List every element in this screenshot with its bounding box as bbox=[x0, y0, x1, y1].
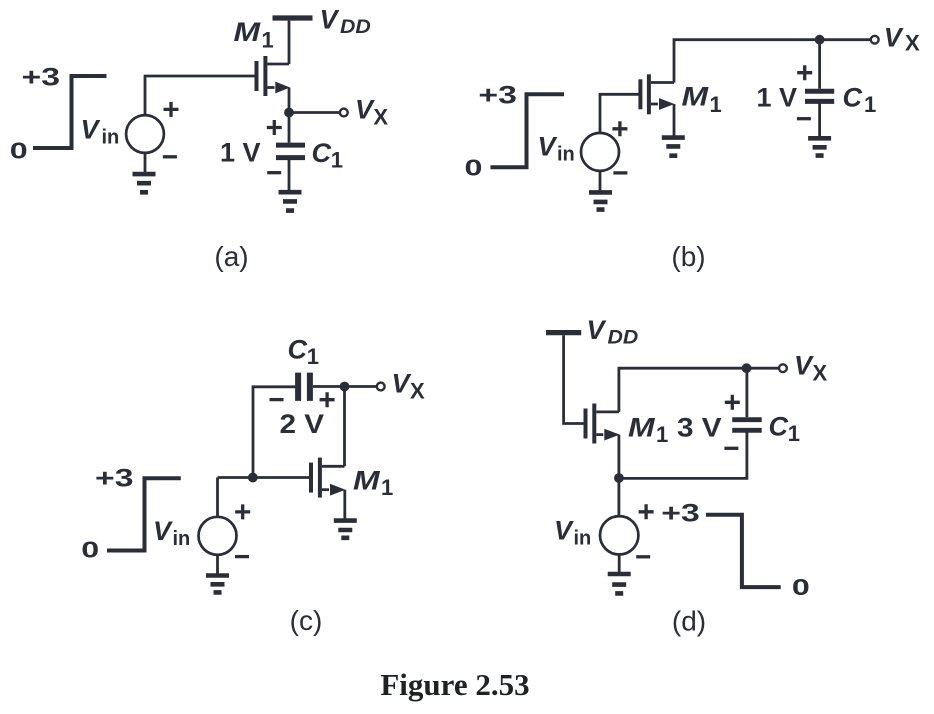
svg-text:V: V bbox=[794, 351, 814, 381]
svg-text:in: in bbox=[173, 528, 191, 550]
label M1 (d) bbox=[628, 413, 668, 447]
voltage source Vin (a) bbox=[126, 115, 164, 153]
wire Vin bottom to ground (a) bbox=[144, 153, 147, 173]
svg-text:1: 1 bbox=[710, 92, 722, 117]
svg-text:(b): (b) bbox=[671, 241, 705, 272]
svg-text:1 V: 1 V bbox=[220, 138, 261, 168]
plus sign Vin (a) bbox=[164, 102, 179, 117]
label VX (a) bbox=[355, 94, 388, 129]
step source label 0 (d) bbox=[792, 574, 810, 599]
label Vin (b) bbox=[538, 132, 575, 166]
transistor M1 (b) bbox=[640, 74, 674, 114]
svg-text:+3: +3 bbox=[478, 82, 516, 110]
wire node to capacitor (d) bbox=[746, 368, 749, 417]
svg-text:+3: +3 bbox=[22, 64, 60, 92]
wire Vin bottom to ground (d) bbox=[618, 555, 621, 573]
step waveform (c) bbox=[107, 478, 181, 550]
svg-text:C: C bbox=[312, 138, 332, 168]
svg-text:0: 0 bbox=[792, 574, 810, 599]
svg-text:M: M bbox=[682, 82, 710, 112]
minus sign capacitor (c) bbox=[270, 398, 284, 401]
plus sign capacitor (a) bbox=[267, 120, 282, 135]
label Vin (a) bbox=[81, 115, 120, 149]
figure caption bbox=[380, 667, 529, 702]
svg-text:0: 0 bbox=[10, 138, 28, 163]
caption (a) bbox=[214, 241, 248, 272]
transistor M1 (a) bbox=[257, 56, 291, 96]
wire node to drain (c) bbox=[343, 387, 346, 467]
ground capacitor (a) bbox=[279, 192, 302, 210]
svg-text:C: C bbox=[769, 412, 789, 442]
wire node to Vin (d) bbox=[618, 478, 621, 516]
minus sign capacitor (a) bbox=[267, 171, 281, 174]
ground M1 source (c) bbox=[334, 521, 357, 538]
value label 1 V (b) bbox=[757, 83, 798, 113]
node X junction dot (a) bbox=[284, 108, 294, 118]
plus sign capacitor (d) bbox=[725, 395, 740, 410]
svg-text:1: 1 bbox=[381, 475, 393, 500]
wire right plate to node X (c) bbox=[313, 385, 340, 388]
caption (c) bbox=[290, 605, 323, 636]
ground Vin (d) bbox=[608, 574, 631, 593]
wire drain to top rail (d) bbox=[619, 368, 742, 412]
wire gate line (c) bbox=[218, 476, 310, 479]
label Vin (d) bbox=[554, 516, 591, 550]
wire Vin bottom to ground (b) bbox=[599, 171, 602, 191]
svg-text:+3: +3 bbox=[95, 465, 133, 493]
wire Vin top to gate (c) bbox=[216, 478, 219, 517]
ground Vin (b) bbox=[589, 192, 612, 209]
wire Vin bottom to ground (c) bbox=[216, 555, 219, 574]
svg-text:(d): (d) bbox=[672, 606, 706, 637]
node junction dot gate (c) bbox=[248, 473, 258, 483]
svg-text:0: 0 bbox=[81, 537, 99, 562]
plus sign capacitor (c) bbox=[320, 392, 335, 407]
svg-text:+3: +3 bbox=[661, 499, 699, 527]
label VX (b) bbox=[884, 22, 920, 55]
node X junction dot (c) bbox=[340, 382, 350, 392]
svg-text:1: 1 bbox=[307, 344, 319, 369]
power VDD symbol (a) bbox=[273, 15, 313, 20]
step source label 0 (c) bbox=[81, 537, 99, 562]
capacitor C1 (c) bbox=[298, 373, 310, 401]
caption (b) bbox=[671, 241, 705, 272]
svg-text:1 V: 1 V bbox=[757, 83, 798, 113]
svg-text:M: M bbox=[234, 17, 262, 47]
ground M1 source (b) bbox=[662, 138, 685, 156]
svg-text:1: 1 bbox=[788, 421, 800, 446]
ground Vin (a) bbox=[133, 174, 156, 192]
capacitor C1 (d) bbox=[732, 420, 762, 431]
value label 3 V (d) bbox=[677, 413, 722, 443]
step source label 0 (b) bbox=[465, 155, 483, 180]
svg-text:V: V bbox=[554, 516, 574, 546]
wire node to output terminal (d) bbox=[751, 367, 779, 370]
output terminal VX (a) bbox=[340, 109, 348, 117]
output terminal VX (c) bbox=[377, 383, 385, 391]
label M1 (a) bbox=[234, 17, 274, 52]
step source label +3 (d) bbox=[661, 499, 699, 527]
power VDD symbol (d) bbox=[546, 330, 581, 335]
minus sign capacitor (d) bbox=[724, 447, 738, 450]
svg-text:1: 1 bbox=[331, 148, 343, 173]
step waveform (d) bbox=[706, 515, 781, 587]
svg-text:V: V bbox=[355, 94, 375, 124]
svg-text:V: V bbox=[538, 132, 558, 162]
svg-text:in: in bbox=[574, 528, 592, 550]
svg-text:(a): (a) bbox=[214, 241, 248, 272]
svg-text:Figure 2.53: Figure 2.53 bbox=[380, 667, 529, 702]
ground capacitor (b) bbox=[808, 138, 831, 155]
minus sign Vin (c) bbox=[235, 555, 249, 558]
minus sign Vin (b) bbox=[613, 171, 627, 174]
svg-text:C: C bbox=[288, 335, 308, 365]
transistor M1 (c) bbox=[311, 458, 345, 498]
wire node to output terminal (b) bbox=[824, 38, 870, 41]
minus sign capacitor (b) bbox=[797, 117, 811, 120]
svg-text:X: X bbox=[813, 361, 828, 386]
svg-text:in: in bbox=[102, 127, 120, 149]
wire capacitor to bottom rail (d) bbox=[619, 430, 747, 478]
wire drain to VDD (a) bbox=[288, 21, 291, 64]
wire node to output terminal (c) bbox=[349, 385, 376, 388]
ground Vin (c) bbox=[206, 576, 229, 593]
svg-text:X: X bbox=[410, 379, 425, 404]
step source label +3 (a) bbox=[22, 64, 60, 92]
svg-text:M: M bbox=[353, 466, 381, 496]
svg-text:1: 1 bbox=[262, 28, 274, 53]
plus sign capacitor (b) bbox=[797, 65, 812, 80]
svg-text:3 V: 3 V bbox=[677, 413, 722, 443]
label VDD (a) bbox=[320, 5, 371, 38]
plus sign Vin (b) bbox=[612, 121, 627, 136]
svg-text:X: X bbox=[373, 105, 388, 130]
voltage source Vin (b) bbox=[581, 133, 619, 171]
wire source to node (d) bbox=[618, 435, 621, 479]
node X junction dot (d) bbox=[742, 363, 752, 373]
label M1 (b) bbox=[682, 82, 722, 117]
label Vin (c) bbox=[153, 516, 190, 550]
plus sign Vin (d) bbox=[639, 504, 654, 519]
label C1 (d) bbox=[769, 412, 801, 447]
capacitor C1 (b) bbox=[805, 91, 834, 101]
step source label +3 (b) bbox=[478, 82, 516, 110]
svg-text:1: 1 bbox=[656, 422, 668, 447]
wire Vin top to gate (b) bbox=[600, 94, 639, 133]
wire capacitor to ground (a) bbox=[288, 158, 291, 191]
label VX (d) bbox=[794, 351, 828, 386]
label C1 (b) bbox=[843, 83, 877, 118]
svg-text:V: V bbox=[392, 369, 412, 399]
svg-text:X: X bbox=[905, 31, 920, 56]
svg-text:V: V bbox=[587, 315, 607, 345]
wire node to output terminal (a) bbox=[289, 111, 339, 114]
node X junction dot (b) bbox=[815, 35, 825, 45]
svg-text:V: V bbox=[153, 516, 173, 546]
voltage source Vin (c) bbox=[199, 517, 237, 555]
minus sign Vin (a) bbox=[163, 155, 177, 158]
svg-text:V: V bbox=[884, 22, 904, 52]
wire node to capacitor (a) bbox=[288, 113, 291, 143]
wire source to ground (c) bbox=[343, 490, 346, 519]
transistor M1 (d) bbox=[586, 404, 620, 444]
svg-text:2 V: 2 V bbox=[280, 409, 325, 439]
step source label 0 (a) bbox=[10, 138, 28, 163]
svg-text:(c): (c) bbox=[290, 605, 323, 636]
svg-text:M: M bbox=[628, 413, 656, 443]
svg-text:DD: DD bbox=[608, 327, 639, 348]
wire node to capacitor (b) bbox=[818, 40, 821, 89]
voltage source Vin (d) bbox=[600, 516, 638, 554]
node junction dot source (d) bbox=[614, 473, 624, 483]
label VDD (d) bbox=[587, 315, 639, 348]
wire left plate to gate branch (c) bbox=[253, 387, 296, 478]
wire Vin top to gate (a) bbox=[145, 76, 255, 115]
svg-text:0: 0 bbox=[465, 155, 483, 180]
step waveform (b) bbox=[491, 94, 565, 167]
wire source to node X (a) bbox=[288, 88, 291, 113]
minus sign Vin (d) bbox=[636, 555, 650, 558]
plus sign Vin (c) bbox=[235, 504, 250, 519]
svg-text:in: in bbox=[557, 144, 575, 166]
step waveform (a) bbox=[33, 76, 107, 148]
step source label +3 (c) bbox=[95, 465, 133, 493]
value label 2 V (c) bbox=[280, 409, 325, 439]
capacitor C1 (a) bbox=[276, 145, 305, 158]
label C1 (c) bbox=[288, 335, 320, 370]
value label 1 V (a) bbox=[220, 138, 261, 168]
label VX (c) bbox=[392, 369, 426, 404]
svg-text:C: C bbox=[843, 83, 863, 113]
output terminal VX (b) bbox=[871, 36, 879, 44]
caption (d) bbox=[672, 606, 706, 637]
output terminal VX (d) bbox=[779, 364, 787, 372]
wire drain to top rail (b) bbox=[674, 40, 815, 83]
wire source to ground (b) bbox=[673, 104, 676, 136]
svg-text:DD: DD bbox=[340, 17, 371, 38]
wire capacitor to ground (b) bbox=[818, 101, 821, 136]
svg-text:1: 1 bbox=[864, 92, 876, 117]
label C1 (a) bbox=[312, 138, 344, 173]
svg-text:V: V bbox=[81, 115, 101, 145]
svg-text:V: V bbox=[320, 5, 340, 35]
label M1 (c) bbox=[353, 466, 393, 500]
wire VDD to gate (d) bbox=[564, 335, 584, 423]
